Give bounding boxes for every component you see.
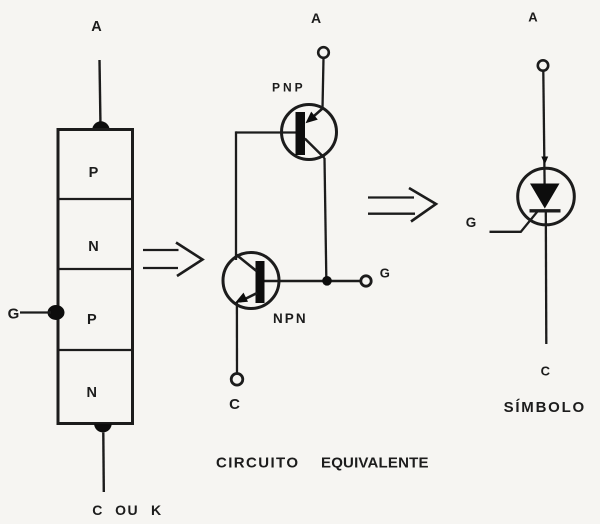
svg-text:NPN: NPN (273, 311, 306, 326)
terminal A (right) (538, 60, 548, 70)
right equivalence arrow line 2 (368, 213, 415, 215)
svg-text:EQUIVALENTE: EQUIVALENTE (321, 455, 429, 472)
transistor NPN (223, 253, 279, 309)
right equivalence arrow chevron (409, 188, 436, 222)
junction divider 1 (60, 198, 132, 200)
svg-text:PNP: PNP (272, 81, 303, 95)
svg-text:G: G (8, 306, 20, 323)
left equivalence arrow chevron (176, 243, 203, 277)
wire gate (right) (490, 211, 539, 232)
terminal G (middle) (361, 276, 371, 286)
left equivalence arrow line 1 (143, 249, 179, 251)
junction divider 2 (60, 268, 132, 270)
wire SCR cathode down (545, 211, 548, 344)
junction dot (322, 276, 332, 286)
svg-text:N: N (87, 385, 97, 401)
left equivalence arrow line 2 (143, 267, 178, 269)
right equivalence arrow line 1 (368, 196, 414, 198)
PNPN block body (58, 130, 133, 424)
transistor PNP (282, 105, 337, 160)
svg-text:A: A (91, 19, 102, 35)
wire left vertical (PNP base to NPN collector) (235, 131, 237, 260)
wire PNP base to left (236, 131, 296, 133)
terminal C (middle) (231, 374, 243, 386)
svg-text:G: G (466, 215, 477, 230)
gate contact bump (48, 305, 65, 320)
svg-text:OU: OU (115, 502, 139, 518)
terminal A (middle) (318, 47, 329, 58)
wire anode lead left (100, 60, 101, 127)
svg-text:G: G (380, 265, 390, 280)
svg-text:K: K (151, 502, 161, 518)
junction divider 3 (60, 349, 132, 351)
svg-text:P: P (89, 165, 99, 181)
wire cathode lead left (102, 433, 105, 493)
anode contact bump (92, 121, 109, 130)
wire A to PNP emitter (323, 58, 324, 108)
wire NPN base to G terminal (265, 280, 362, 283)
cathode contact bump (94, 424, 112, 433)
svg-text:N: N (88, 239, 98, 255)
svg-text:SÍMBOLO: SÍMBOLO (504, 399, 585, 416)
SCR symbol U1 (518, 168, 575, 225)
svg-text:A: A (528, 10, 538, 25)
svg-text:A: A (311, 10, 321, 26)
small arrow on anode wire (541, 157, 548, 165)
svg-text:C: C (541, 364, 551, 379)
svg-text:C: C (92, 502, 102, 518)
wire PNP collector down (325, 158, 327, 277)
wire gate lead left (20, 311, 51, 313)
svg-text:P: P (87, 312, 97, 328)
wire A to SCR (543, 71, 544, 184)
wire NPN emitter down (236, 303, 238, 374)
svg-text:C: C (229, 396, 240, 413)
